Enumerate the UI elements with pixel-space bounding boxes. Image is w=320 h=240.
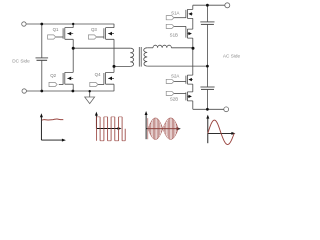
svg-text:S2A: S2A [171, 74, 179, 79]
svg-text:Q3: Q3 [91, 27, 97, 32]
svg-text:DC Side: DC Side [12, 58, 30, 63]
svg-text:Q4: Q4 [95, 72, 101, 77]
svg-text:AC Side: AC Side [223, 54, 241, 59]
svg-text:S1B: S1B [170, 33, 178, 38]
svg-text:S2B: S2B [170, 97, 178, 102]
svg-text:S1A: S1A [171, 10, 179, 15]
svg-text:Q1: Q1 [53, 27, 59, 32]
svg-text:Q2: Q2 [50, 73, 56, 78]
